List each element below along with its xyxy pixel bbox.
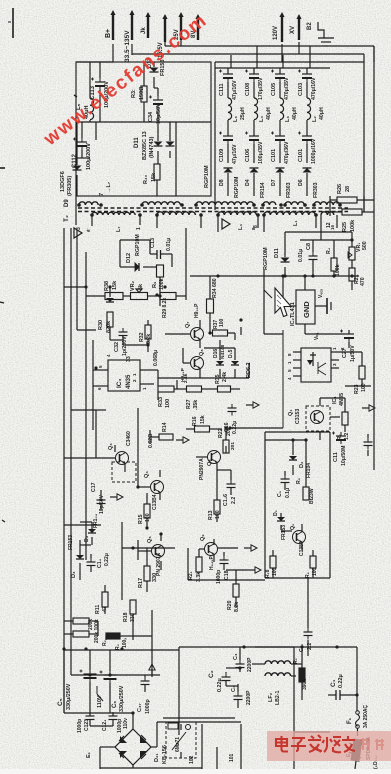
svg-text:40μH: 40μH (292, 107, 298, 120)
svg-text:R26: R26 (337, 184, 343, 194)
terminal arrow right 1 (362, 405, 375, 411)
svg-text:C1₄: C1₄ (97, 558, 103, 568)
svg-text:2200P: 2200P (246, 690, 252, 705)
resistor R2 200k (73, 619, 108, 646)
label L4 8 (238, 224, 259, 230)
svg-text:Q₁: Q₁ (288, 409, 294, 416)
svg-text:47μ/16V: 47μ/16V (232, 80, 238, 100)
svg-text:(FR305): (FR305) (67, 176, 73, 196)
label 7 L7 (86, 182, 335, 232)
svg-text:28: 28 (345, 186, 351, 192)
svg-text:201: 201 (230, 442, 236, 450)
wire AC top rail (163, 647, 294, 735)
label 110V switch (97, 686, 103, 708)
svg-text:D12: D12 (126, 253, 132, 263)
svg-text:R15: R15 (138, 514, 144, 524)
diode D zener R30 (98, 298, 114, 333)
svg-text:FR104: FR104 (306, 463, 312, 478)
capacitor C9 0.1u (277, 475, 291, 498)
svg-text:C34: C34 (148, 111, 154, 122)
resistor R7 1.2 (337, 412, 350, 440)
label E1 bridge (86, 751, 92, 758)
IC3 pins (93, 340, 150, 430)
resistor R17 330 (138, 566, 158, 588)
capacitor C146 2.2 (223, 480, 237, 506)
capacitor C1 0.22u (328, 674, 357, 700)
winding top right1 (196, 202, 254, 205)
wire snubber (265, 440, 313, 578)
wire inlet (294, 647, 356, 769)
svg-text:C123: C123 (84, 719, 90, 731)
wire 25V drop (180, 40, 182, 46)
svg-text:FR303: FR303 (313, 182, 319, 198)
resistor R25 100k (342, 209, 362, 232)
left block border (76, 62, 211, 196)
svg-text:GND: GND (302, 301, 311, 318)
svg-text:101: 101 (229, 753, 235, 762)
svg-text:C₃₇: C₃₇ (137, 703, 143, 712)
capacitor C8 0.01u (298, 243, 318, 264)
svg-text:15k: 15k (151, 172, 157, 182)
ground IC2 (315, 298, 331, 314)
svg-text:R25: R25 (342, 222, 348, 232)
svg-text:Bt23W: Bt23W (309, 488, 315, 504)
wire D12 C13 (120, 228, 186, 300)
svg-text:B+: B+ (105, 29, 112, 38)
wire Q3 (96, 410, 125, 472)
diode D3 FR153 (68, 535, 84, 578)
svg-text:390k: 390k (302, 679, 308, 690)
svg-text:IC₁: IC₁ (332, 396, 338, 405)
svg-text:D₄: D₄ (84, 535, 90, 542)
wire col C111 (227, 68, 229, 196)
op-amp IC1 4N35 (301, 348, 345, 406)
svg-text:C3153: C3153 (295, 409, 301, 424)
svg-text:N4148: N4148 (220, 345, 226, 359)
resistor R40 15k (143, 164, 160, 184)
svg-text:2.2: 2.2 (231, 497, 237, 504)
resistor R35 2.4k (215, 372, 231, 392)
svg-text:500: 500 (362, 241, 368, 250)
svg-text:BZX85C 13: BZX85C 13 (142, 131, 148, 160)
svg-text:Q₂: Q₂ (290, 523, 296, 530)
svg-text:.35k: .35k (193, 400, 199, 410)
svg-text:6Μƶ71: 6Μƶ71 (175, 737, 181, 752)
svg-text:Q₉: Q₉ (200, 534, 206, 541)
terminal arrow right 4 (110, 494, 123, 500)
svg-text:D8: D8 (219, 179, 225, 186)
wire R26 R25 (330, 196, 374, 216)
capacitor C37 1000p (137, 677, 151, 714)
resistor R9 100k (152, 265, 165, 290)
resistor R21 470 (349, 268, 366, 286)
svg-text:330μ/250V: 330μ/250V (119, 685, 125, 712)
capacitor C101 (271, 132, 290, 165)
svg-text:470μ/35V: 470μ/35V (284, 77, 290, 100)
svg-text:470: 470 (360, 277, 366, 286)
wire R20 (226, 570, 248, 608)
capacitor C14 0.22u (87, 553, 111, 569)
terminal 16.5V (158, 14, 168, 58)
svg-text:33.5~135V: 33.5~135V (124, 30, 131, 62)
svg-text:D7: D7 (271, 179, 277, 186)
svg-text:R₅: R₅ (296, 477, 302, 484)
svg-text:0.22μ: 0.22μ (104, 553, 110, 566)
svg-text:R16: R16 (192, 416, 198, 426)
diode D11 RGP10M (263, 247, 290, 270)
AC inlet E1 (346, 736, 379, 769)
svg-text:D₁: D₁ (273, 510, 279, 516)
svg-text:100k: 100k (350, 219, 356, 232)
transistor Q3 C3460 (108, 431, 136, 482)
potentiometer VR2 5k (130, 280, 148, 299)
svg-text:R₁8: R₁8 (265, 569, 271, 578)
terminal 120V (273, 12, 285, 42)
control box edge (188, 548, 265, 580)
svg-text:10μ/50V: 10μ/50V (156, 103, 162, 124)
resistor R34 680 (207, 278, 219, 313)
svg-text:Q₇: Q₇ (185, 322, 191, 328)
IC1 internals (307, 352, 326, 375)
capacitor C111 (219, 70, 238, 101)
svg-text:0.068μ: 0.068μ (153, 350, 159, 366)
svg-text:Q₆: Q₆ (207, 459, 213, 466)
svg-text:R11: R11 (95, 605, 101, 614)
svg-text:0.22μ: 0.22μ (338, 674, 344, 688)
svg-text:R14: R14 (162, 422, 168, 432)
wire top bus 2 (132, 53, 364, 55)
bridge labels (154, 745, 168, 764)
terminal arrow right 2 (246, 402, 259, 408)
choke LF2 LB2-1 (265, 661, 291, 705)
wire col C108 (253, 68, 255, 196)
wire R14 (150, 430, 159, 444)
svg-text:10p/50V: 10p/50V (99, 494, 105, 514)
svg-text:0.22μ: 0.22μ (217, 678, 223, 692)
terminal 25V (174, 12, 184, 40)
svg-text:D11: D11 (274, 248, 280, 258)
svg-text:R18: R18 (123, 612, 129, 622)
svg-text:R22: R22 (218, 428, 224, 438)
svg-text:0.62Ω: 0.62Ω (148, 434, 154, 448)
svg-text:1000μ/16V: 1000μ/16V (311, 138, 317, 164)
svg-text:C101: C101 (271, 149, 277, 162)
wire bridge (64, 650, 202, 769)
svg-text:470μ/36V: 470μ/36V (284, 141, 290, 164)
terminal 33.5~135V (124, 10, 135, 62)
wire rail y276 (190, 275, 359, 277)
resistor R11 47 (95, 592, 108, 614)
resistor R23 100 (354, 366, 367, 394)
svg-text:R29 8.2k: R29 8.2k (162, 297, 168, 318)
capacitor C106 (245, 132, 264, 165)
capacitor C13 (150, 238, 172, 259)
svg-text:R33: R33 (158, 397, 164, 407)
svg-text:170μ/35V: 170μ/35V (258, 77, 264, 100)
svg-text:C106: C106 (245, 149, 251, 162)
diode D7 FR303 (271, 168, 292, 198)
svg-text:C₄: C₄ (233, 653, 239, 660)
capacitor aux right (364, 434, 373, 456)
svg-text:15k: 15k (200, 415, 206, 424)
wire right rail x374 (373, 46, 375, 470)
IC2 TL431 block (290, 289, 324, 340)
resistor R19 200k (73, 618, 94, 630)
svg-text:C103: C103 (298, 83, 304, 96)
relay box (166, 722, 196, 764)
svg-text:0.22μ: 0.22μ (232, 421, 238, 434)
svg-text:FR154: FR154 (260, 182, 266, 198)
winding seg a (263, 202, 276, 205)
svg-text:L₇: L₇ (116, 226, 122, 232)
winding bottom 5 (321, 212, 334, 215)
svg-text:1000p: 1000p (145, 699, 151, 714)
diode D4 FR104 (84, 513, 99, 542)
wire VR1 R21 (285, 232, 352, 290)
svg-text:L₄: L₄ (238, 224, 244, 230)
svg-text:3A 250AÇ: 3A 250AÇ (363, 704, 369, 728)
terminal JK (141, 12, 151, 38)
resistor R5 0.1 (296, 477, 315, 504)
capacitor C101 (298, 132, 317, 165)
transistor Q4 C1384 (144, 471, 164, 510)
svg-text:L₃: L₃ (285, 116, 291, 122)
svg-text:L₂: L₂ (312, 116, 318, 122)
resistor R18 330 (123, 600, 136, 622)
wire LF2 (226, 647, 302, 708)
diode D12 RGP10M (126, 234, 141, 271)
svg-text:102: 102 (189, 755, 195, 764)
wire R23 (339, 352, 371, 386)
capacitor C2 0.22u (208, 670, 231, 692)
right block border (215, 62, 364, 212)
wire rail x86 (64, 230, 101, 560)
svg-text:C₆: C₆ (112, 701, 118, 708)
wire y425 rail (186, 330, 283, 429)
inductor L&#8323; (228, 98, 246, 122)
wire block bottom left (76, 122, 96, 225)
resistor R15 100 (138, 504, 151, 524)
svg-text:FR153: FR153 (68, 535, 74, 550)
capacitor C32 (114, 328, 128, 356)
wire col C105 (279, 68, 281, 196)
diode D16 N4148 (213, 345, 226, 365)
svg-text:2.4k: 2.4k (222, 372, 228, 382)
wire C17 (100, 490, 102, 510)
capacitor C4 2200p (233, 653, 253, 672)
svg-text:RGP10M: RGP10M (234, 177, 240, 198)
resistor R22 20k (218, 427, 232, 453)
svg-text:1000p: 1000p (216, 570, 222, 584)
winding seg b (285, 202, 304, 205)
capacitor C109 (219, 132, 238, 165)
resistor R6 100 (305, 556, 318, 578)
svg-text:R3:: R3: (131, 89, 137, 98)
svg-text:R27: R27 (186, 399, 192, 409)
watermark elecfans diagonal (39, 9, 211, 150)
transistor Q9 H945P (200, 534, 218, 570)
svg-text:D4: D4 (245, 179, 251, 186)
svg-text:R₉: R₉ (152, 281, 158, 288)
transistor Q8 (180, 349, 205, 382)
IC1 pins (287, 347, 345, 380)
svg-text:D9: D9 (64, 199, 70, 207)
wire right block top rail (215, 67, 330, 69)
resistor R14 0.62 (148, 422, 173, 448)
svg-text:15k: 15k (112, 280, 118, 290)
capacitor C3 2200p (231, 685, 252, 705)
svg-text:13DGF6: 13DGF6 (60, 171, 66, 192)
potentiometer VR1 500 (348, 241, 368, 260)
capacitor C103 (298, 70, 317, 101)
wire rail x71 (70, 228, 72, 640)
wire R15 (146, 493, 148, 528)
svg-text:RGP10M: RGP10M (204, 165, 210, 188)
diode D8 RGP10M (219, 168, 240, 198)
watermark chinese chars (276, 735, 384, 752)
diode D13 FR153 (147, 58, 166, 76)
svg-text:R₃: R₃ (115, 643, 121, 650)
capacitor C27 1u/50V (340, 330, 356, 363)
svg-text:10μ/50Μ: 10μ/50Μ (341, 446, 347, 466)
diode D1 FR153 (273, 510, 287, 540)
transformer core (78, 208, 348, 212)
resistor R29 8.2k (160, 293, 176, 319)
capacitor C34 (148, 96, 163, 125)
svg-text:FR153: FR153 (281, 525, 287, 540)
svg-text:XV: XV (290, 26, 296, 34)
snubber block border (265, 432, 330, 578)
wire IC2 (264, 270, 344, 334)
svg-text:200k 100k: 200k 100k (94, 619, 100, 643)
capacitor C105 (271, 70, 290, 101)
winding bottom 1 (92, 212, 135, 215)
capacitor C5 330u (57, 670, 97, 711)
svg-text:100: 100 (145, 513, 151, 522)
svg-text:D16: D16 (213, 349, 219, 358)
capacitor C11 10u/50V (332, 432, 347, 467)
watermark band bottom (267, 731, 391, 761)
svg-text:C17: C17 (91, 482, 97, 492)
zener D11 BZX85C (134, 131, 175, 160)
svg-text:40μH: 40μH (319, 107, 325, 120)
inductor L&#8324; (254, 98, 272, 122)
resistor R3 150 (131, 86, 147, 102)
svg-text:D6: D6 (298, 179, 304, 186)
polarity triangle 1 (74, 228, 82, 238)
svg-text:2.4k: 2.4k (183, 373, 189, 383)
svg-text:C₉: C₉ (277, 490, 283, 497)
pin 3 label (76, 227, 90, 232)
terminal arrow right 3 (176, 437, 189, 443)
svg-text:C11: C11 (333, 452, 339, 462)
terminal arrow right 5 (244, 545, 257, 551)
resistor R16 15k (192, 415, 210, 432)
resistor R20 8.2k (227, 584, 240, 612)
svg-text:D₁5: D₁5 (228, 349, 234, 358)
terminal XV (290, 14, 302, 40)
wire right bus down (364, 46, 374, 62)
svg-text:C111: C111 (219, 83, 225, 96)
wire R3 C34 (144, 62, 158, 122)
wire C10 (307, 578, 309, 656)
capacitor C123 1000p (77, 712, 95, 733)
winding seg c (314, 202, 340, 205)
terminal B+ (105, 10, 116, 40)
resistor R4 100k (326, 247, 341, 276)
svg-text:Vₑₒₓ: Vₑₒₓ (318, 289, 324, 298)
resistor R8 100 (265, 556, 278, 578)
page edge mark top-left (8, 8, 13, 38)
svg-text:C13B4: C13B4 (152, 494, 158, 510)
capacitor C113 (90, 78, 110, 109)
page speck left (0, 95, 77, 522)
wire 16.5 drop (164, 42, 166, 46)
svg-text:100: 100 (215, 510, 221, 519)
svg-text:R32: R32 (139, 332, 145, 342)
wire y649 rail (64, 650, 179, 677)
resistor R27 35k (186, 386, 202, 410)
svg-text:150Ω: 150Ω (139, 86, 145, 100)
wire R38 VR2 (86, 277, 186, 306)
label C33 (126, 350, 159, 366)
resistor R3b 100k (106, 633, 128, 650)
svg-text:KB-156: KB-156 (162, 745, 168, 764)
capacitor C16 0.22u (224, 404, 238, 450)
svg-text:110ν: 110ν (123, 718, 129, 729)
wire D3 D4 C14 (80, 522, 92, 580)
svg-text:R₆: R₆ (305, 572, 311, 578)
capacitor C124 1000p (102, 712, 129, 733)
svg-text:120V: 120V (273, 26, 279, 40)
svg-text:VR₂: VR₂ (130, 280, 136, 291)
wire col C103 (306, 68, 308, 196)
wire rail x64 (63, 228, 65, 650)
capacitor C6 330u (100, 671, 126, 713)
svg-text:RGP10M: RGP10M (263, 247, 269, 270)
svg-text:FR1₀₄: FR1₀₄ (93, 513, 99, 528)
wire C37 (90, 675, 145, 726)
wire drop XV (298, 42, 300, 54)
svg-text:47μ/16V: 47μ/16V (232, 144, 238, 164)
wire Q1 R7 (320, 398, 345, 440)
mouse cursor (275, 288, 291, 317)
svg-text:4N35: 4N35 (339, 393, 345, 406)
svg-text:100ₓ: 100ₓ (122, 638, 128, 648)
svg-text:C12₄: C12₄ (102, 719, 108, 731)
svg-text:C105: C105 (271, 83, 277, 96)
op-amp IC3 4N35 (108, 360, 140, 391)
svg-text:→L₇: →L₇ (106, 182, 112, 193)
svg-text:LF₂: LF₂ (268, 692, 274, 702)
resistor R33 100 (158, 386, 174, 408)
svg-text:(IN4743): (IN4743) (149, 136, 155, 158)
winding end ticks (77, 203, 342, 217)
svg-text:C32: C32 (114, 342, 120, 352)
wire Q5 Q9 (138, 534, 238, 570)
svg-text:LB2-1: LB2-1 (275, 690, 281, 705)
wire mid right tangle (200, 276, 249, 378)
capacitor C10 2.2 (299, 628, 313, 652)
diode D6 FR303 (298, 168, 319, 198)
svg-text:R2₁: R2₁ (188, 571, 194, 580)
svg-text:C3460: C3460 (126, 431, 132, 446)
wire L5 (90, 62, 100, 122)
svg-text:R30: R30 (98, 320, 104, 330)
svg-text:B2: B2 (307, 22, 313, 30)
svg-text:100k: 100k (335, 264, 341, 276)
wire B+ drop (76, 44, 113, 62)
